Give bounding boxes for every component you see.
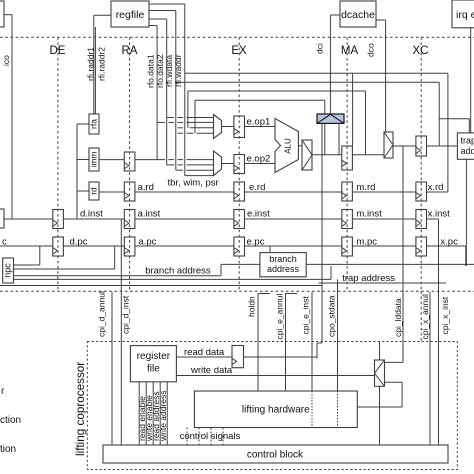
svg-text:cpi_d_annul: cpi_d_annul xyxy=(96,291,106,337)
svg-text:ico: ico xyxy=(1,55,11,66)
svg-text:npc: npc xyxy=(3,263,13,278)
svg-text:a.pc: a.pc xyxy=(138,237,156,248)
svg-text:add: add xyxy=(461,146,474,156)
svg-text:EX: EX xyxy=(231,45,247,57)
svg-text:write address: write address xyxy=(158,390,168,442)
svg-text:cpo_stdata: cpo_stdata xyxy=(326,295,336,337)
svg-text:a.inst: a.inst xyxy=(138,208,161,219)
svg-text:dci: dci xyxy=(314,43,324,54)
svg-text:ALU: ALU xyxy=(284,138,293,154)
svg-text:tion: tion xyxy=(0,444,16,455)
svg-text:register: register xyxy=(137,351,171,362)
svg-text:e.rd: e.rd xyxy=(249,182,265,193)
svg-text:cpi_e_inst: cpi_e_inst xyxy=(300,296,310,335)
svg-text:cpi_lddata: cpi_lddata xyxy=(393,298,403,337)
svg-text:e.inst: e.inst xyxy=(247,208,270,219)
svg-text:a.rd: a.rd xyxy=(138,182,154,193)
svg-text:lifting hardware: lifting hardware xyxy=(242,405,310,416)
svg-text:x.pc: x.pc xyxy=(440,237,458,248)
svg-text:ction: ction xyxy=(0,415,21,426)
svg-text:c: c xyxy=(2,237,7,248)
svg-text:trap address: trap address xyxy=(342,273,395,284)
svg-text:dcache: dcache xyxy=(341,9,375,21)
svg-text:control signals: control signals xyxy=(180,431,241,442)
svg-text:m.inst: m.inst xyxy=(356,208,382,219)
svg-text:cpi_d_inst: cpi_d_inst xyxy=(120,295,130,334)
svg-text:irq e: irq e xyxy=(456,9,474,21)
svg-text:e.op2: e.op2 xyxy=(247,154,271,165)
svg-text:x.rd: x.rd xyxy=(428,182,444,193)
svg-text:regfile: regfile xyxy=(116,9,145,21)
svg-text:imm: imm xyxy=(88,151,98,167)
svg-text:address: address xyxy=(267,264,300,274)
svg-text:cpi_e_annul: cpi_e_annul xyxy=(274,294,284,340)
svg-text:rd: rd xyxy=(88,187,98,195)
svg-text:write data: write data xyxy=(190,365,233,376)
svg-text:lifting coprocessor: lifting coprocessor xyxy=(74,362,87,456)
svg-text:m.rd: m.rd xyxy=(356,182,375,193)
svg-text:MA: MA xyxy=(341,45,359,57)
svg-text:e.op1: e.op1 xyxy=(247,117,271,128)
svg-text:DE: DE xyxy=(50,45,66,57)
svg-text:rfo.data1: rfo.data1 xyxy=(145,54,155,88)
svg-text:tbr, wim, psr: tbr, wim, psr xyxy=(168,178,219,189)
svg-text:RA: RA xyxy=(122,45,138,57)
svg-text:d.inst: d.inst xyxy=(80,208,103,219)
svg-text:rfa: rfa xyxy=(88,119,98,129)
svg-text:holdn: holdn xyxy=(246,296,256,317)
svg-text:XC: XC xyxy=(413,45,429,57)
svg-text:rfi.raddr2: rfi.raddr2 xyxy=(96,47,106,81)
svg-text:d.pc: d.pc xyxy=(70,237,88,248)
svg-text:rfi.raddr1: rfi.raddr1 xyxy=(85,47,95,81)
svg-text:branch address: branch address xyxy=(145,266,211,277)
svg-text:control block: control block xyxy=(247,450,304,461)
svg-text:e.pc: e.pc xyxy=(247,237,265,248)
svg-text:trap: trap xyxy=(461,136,474,146)
svg-text:branch: branch xyxy=(269,254,297,264)
svg-text:read data: read data xyxy=(184,347,225,358)
svg-text:x.inst: x.inst xyxy=(428,208,451,219)
svg-text:m.pc: m.pc xyxy=(356,237,377,248)
svg-text:file: file xyxy=(147,364,160,375)
svg-text:cpi_x_annul: cpi_x_annul xyxy=(420,294,430,339)
svg-text:dco: dco xyxy=(365,43,375,57)
svg-text:cpi_x_inst: cpi_x_inst xyxy=(440,296,450,334)
